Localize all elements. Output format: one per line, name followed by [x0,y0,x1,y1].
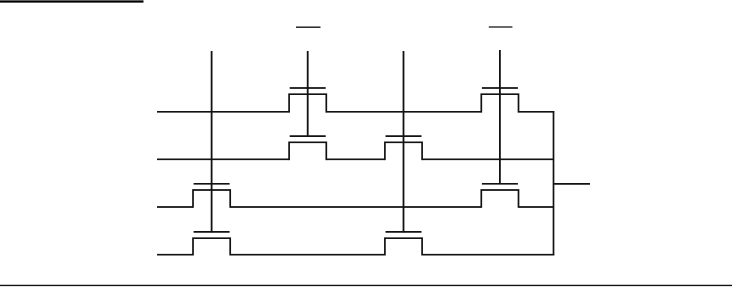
wire: input rail I2 left segment [157,206,193,208]
footer rule (page bottom line) [0,284,732,286]
transistor Q5 (rail I2, gate A) [193,184,230,208]
control line A' (vertical, gates Q1 and Q3) [307,51,309,137]
wire: input rail I3 left segment [157,254,193,256]
control line B (vertical, gates Q4 and Q8) [403,51,405,233]
overbar of complement label over control line A' [296,26,321,28]
transistor Q6 (rail I2, gate B') [481,184,518,208]
wire: input rail I1 middle segment [326,158,385,160]
transistor Q7 (rail I3, gate A) [193,232,230,256]
overbar of complement label over control line B' [489,26,513,28]
transistor Q1 (rail I0, gate A') [289,88,326,113]
wire: output stub F [554,183,591,185]
transistor Q2 (rail I0, gate B') [481,88,518,113]
wire: input rail I3 right segment to output bus bottom [422,254,554,256]
control line A (vertical, gates Q5 and Q7) [211,51,213,233]
control line B' (vertical, gates Q2 and Q6) [499,50,501,185]
wire: output bus (right vertical joining all rails) [553,111,555,255]
transistor Q4 (rail I1, gate B) [385,136,422,160]
wire: input rail I1 left segment [157,158,289,160]
transistor Q3 (rail I1, gate A') [289,136,326,160]
wire: input rail I0 left segment [157,111,289,113]
wire: input rail I3 middle segment [230,254,385,256]
wire: input rail I0 right segment to output bus corner [519,111,555,113]
wire: input rail I0 middle segment [326,111,481,113]
transistor Q8 (rail I3, gate B) [385,232,422,256]
wire: input rail I2 middle segment [230,206,481,208]
wire: input rail I1 right segment to output bus [422,158,553,160]
wire: input rail I2 right segment to output bus [519,206,554,208]
header rule (top-left page artifact) [0,0,144,2]
